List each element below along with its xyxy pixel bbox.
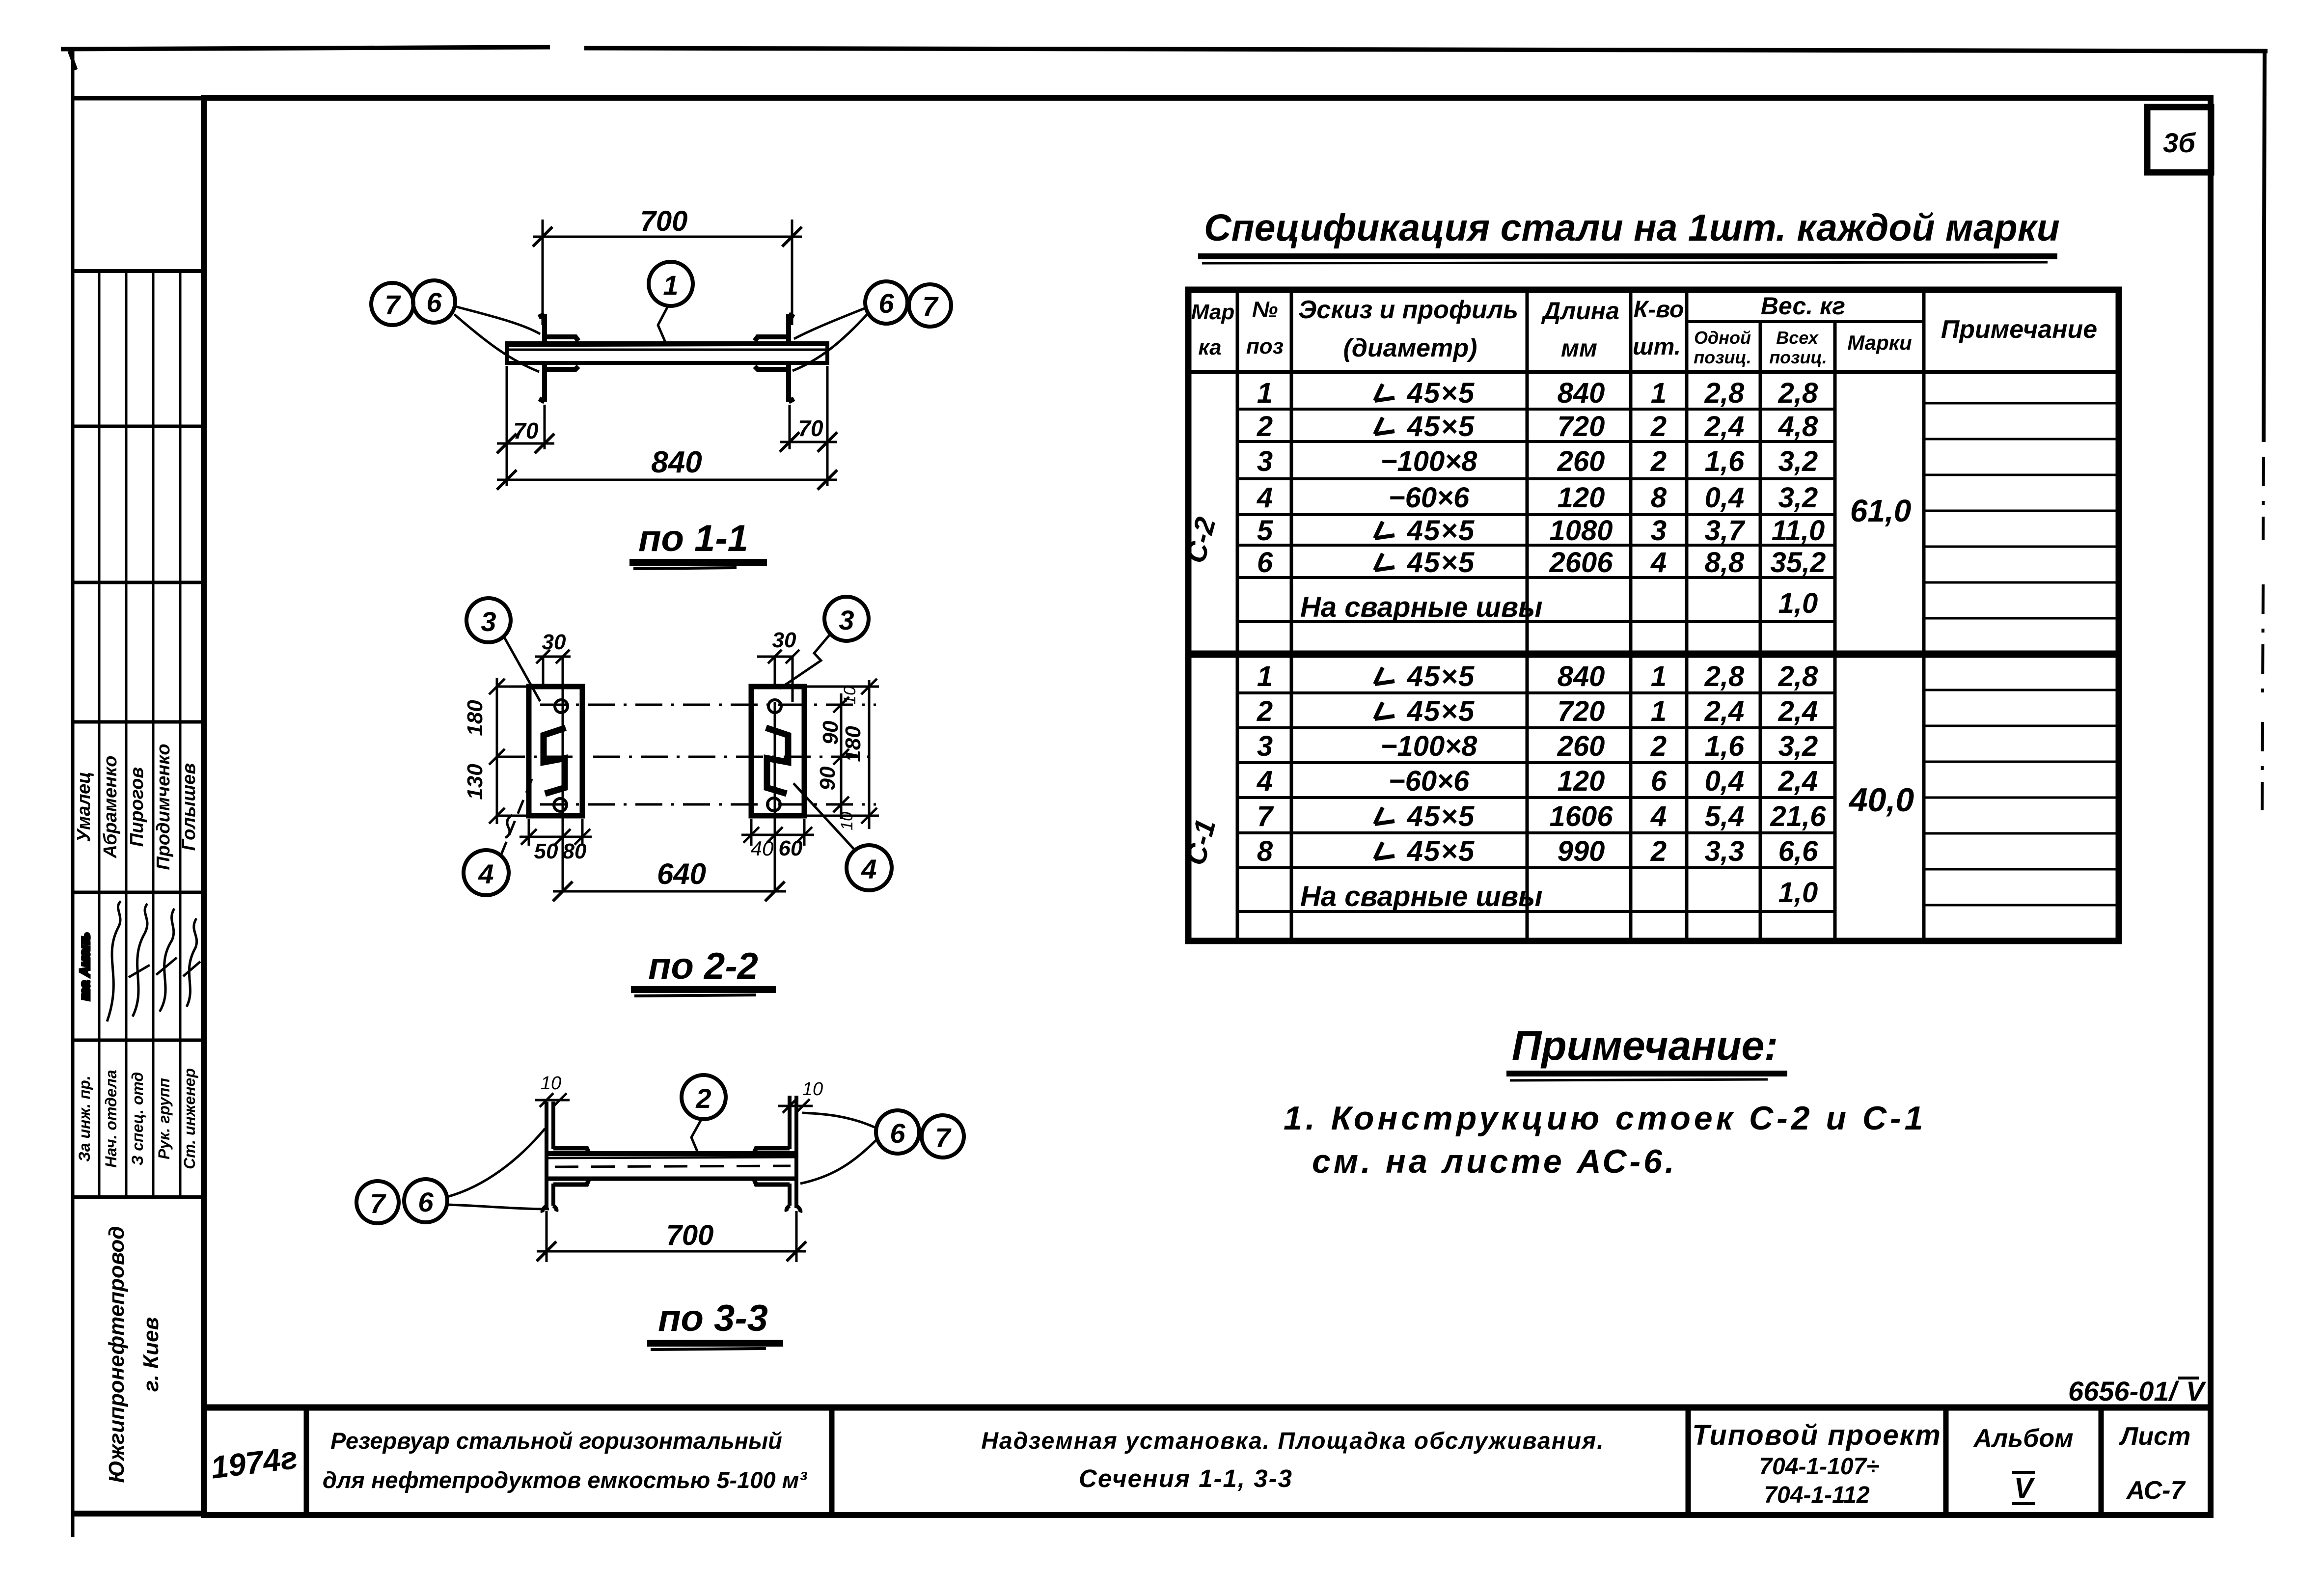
- svg-text:V: V: [2014, 1472, 2035, 1504]
- svg-text:Типовой проект: Типовой проект: [1692, 1419, 1941, 1451]
- svg-text:30: 30: [772, 628, 796, 652]
- svg-text:2: 2: [1650, 835, 1667, 867]
- svg-text:45×5: 45×5: [1407, 835, 1476, 867]
- dims 40/60 bottom right: [751, 702, 804, 891]
- svg-text:по 3-3: по 3-3: [658, 1297, 768, 1339]
- svg-text:4: 4: [861, 854, 876, 884]
- primechanie column row lines: [1924, 403, 2119, 905]
- callout circle 6 (right): [865, 281, 907, 324]
- svg-text:6: 6: [890, 1118, 905, 1149]
- svg-text:4,8: 4,8: [1778, 411, 1818, 442]
- svg-text:позиц.: позиц.: [1694, 347, 1751, 367]
- svg-text:3,2: 3,2: [1778, 445, 1818, 477]
- svg-text:6: 6: [426, 287, 442, 318]
- bolt hole left top: [555, 700, 568, 713]
- svg-text:11,0: 11,0: [1772, 515, 1825, 547]
- table row C-2 pos 1: [1257, 377, 1818, 409]
- svg-text:Продимченко: Продимченко: [153, 744, 174, 870]
- svg-text:Всех: Всех: [1776, 328, 1819, 348]
- svg-text:1: 1: [1651, 377, 1667, 409]
- svg-text:840: 840: [651, 445, 702, 479]
- svg-text:Ст. инженер: Ст. инженер: [181, 1068, 198, 1169]
- callout circle 6 (right): [876, 1110, 919, 1154]
- svg-text:1: 1: [1651, 661, 1667, 692]
- svg-text:№: №: [1252, 297, 1278, 322]
- table row C-2 pos 6: [1257, 547, 1826, 579]
- left stamp column grid: [73, 98, 206, 1515]
- angle profile pos 5 in left plate: [544, 728, 566, 794]
- svg-text:Резервуар стальной горизонтал: Резервуар стальной горизонтальный: [330, 1428, 782, 1454]
- svg-text:2,4: 2,4: [1778, 695, 1818, 727]
- svg-text:Марки: Марки: [1847, 331, 1912, 354]
- dim 700 (top): [533, 220, 802, 325]
- svg-text:Одной: Одной: [1694, 328, 1751, 348]
- svg-text:Надземная установка. Площадка: Надземная установка. Площадка обслуживан…: [981, 1428, 1604, 1454]
- svg-text:130: 130: [463, 764, 487, 800]
- table row C-1 pos 2: [1257, 695, 1818, 727]
- gusset plate left (pos 3): [529, 687, 582, 816]
- svg-text:990: 990: [1558, 835, 1605, 867]
- leader lines left: [455, 306, 540, 334]
- svg-text:4: 4: [1650, 800, 1667, 832]
- svg-text:640: 640: [657, 857, 706, 890]
- svg-text:3б: 3б: [2163, 127, 2196, 158]
- svg-text:45×5: 45×5: [1407, 547, 1476, 579]
- beam pos 1 angle 45x5: [507, 343, 827, 363]
- svg-text:10: 10: [838, 812, 856, 830]
- svg-text:мм: мм: [1561, 334, 1597, 362]
- svg-text:позиц.: позиц.: [1769, 347, 1827, 367]
- svg-text:50: 50: [534, 839, 558, 863]
- beam pos 2 angle: [547, 1154, 796, 1179]
- svg-text:704-1-112: 704-1-112: [1764, 1482, 1870, 1508]
- table row C-1 pos 7: [1257, 800, 1826, 832]
- gusset plate right (pos 3): [751, 687, 804, 816]
- svg-text:2,8: 2,8: [1704, 661, 1745, 692]
- svg-text:2: 2: [1650, 411, 1667, 442]
- callout circle 7 (left): [356, 1181, 399, 1223]
- table row C-1 pos 3: [1257, 730, 1818, 762]
- svg-text:г. Киев: г. Киев: [139, 1317, 163, 1392]
- svg-text:1: 1: [1651, 695, 1667, 727]
- svg-text:260: 260: [1557, 730, 1605, 762]
- svg-text:6: 6: [418, 1186, 434, 1217]
- table row C-1 pos 8: [1257, 835, 1818, 867]
- svg-text:см. на листе АС-6.: см. на листе АС-6.: [1312, 1143, 1677, 1180]
- title block frame: [204, 1405, 2211, 1411]
- table row C-1 pos 1: [1257, 661, 1818, 692]
- svg-text:704-1-107÷: 704-1-107÷: [1759, 1454, 1879, 1480]
- svg-text:120: 120: [1558, 765, 1605, 797]
- table column lines: [1237, 290, 1924, 941]
- svg-text:2,8: 2,8: [1778, 661, 1818, 692]
- header bottom line: [1188, 370, 2119, 374]
- svg-text:4: 4: [1650, 547, 1667, 579]
- svg-text:ка: ка: [1198, 335, 1221, 359]
- svg-text:Примечание: Примечание: [1941, 315, 2097, 344]
- svg-text:−100×8: −100×8: [1381, 730, 1478, 762]
- svg-text:2,4: 2,4: [1778, 765, 1818, 797]
- svg-text:3: 3: [839, 605, 854, 635]
- svg-text:Пирогов: Пирогов: [127, 767, 147, 847]
- svg-text:35,2: 35,2: [1771, 547, 1826, 579]
- svg-text:2,4: 2,4: [1704, 411, 1745, 442]
- leader lines right: [794, 308, 866, 339]
- svg-text:1: 1: [1257, 377, 1273, 409]
- svg-text:45×5: 45×5: [1407, 377, 1476, 409]
- svg-text:1606: 1606: [1549, 800, 1613, 832]
- svg-text:2,4: 2,4: [1704, 695, 1745, 727]
- svg-text:Вес. кг: Вес. кг: [1761, 292, 1845, 320]
- svg-text:7: 7: [370, 1188, 386, 1219]
- svg-text:3: 3: [1257, 730, 1273, 762]
- svg-text:10: 10: [802, 1079, 823, 1100]
- svg-text:90: 90: [819, 720, 843, 745]
- main drawing frame: [204, 98, 2211, 1515]
- svg-text:7: 7: [384, 289, 401, 320]
- svg-text:З спец. отд: З спец. отд: [129, 1072, 146, 1165]
- svg-text:840: 840: [1558, 377, 1605, 409]
- svg-text:80: 80: [563, 839, 587, 863]
- svg-text:по 2-2: по 2-2: [648, 945, 758, 987]
- svg-text:8: 8: [1257, 835, 1273, 867]
- svg-text:70: 70: [513, 418, 539, 443]
- svg-text:Голышев: Голышев: [179, 763, 199, 851]
- svg-text:4: 4: [1257, 482, 1273, 514]
- svg-text:Эскиз и профиль: Эскиз и профиль: [1298, 296, 1518, 324]
- svg-text:180: 180: [841, 726, 865, 762]
- table frame: [1188, 290, 2119, 941]
- svg-text:720: 720: [1558, 411, 1605, 442]
- dims 180/130 left: [496, 678, 498, 824]
- svg-text:Спецификация стали на 1шт.: Спецификация стали на 1шт. каждой марки: [1204, 207, 2060, 249]
- bolt hole right bottom: [767, 798, 780, 811]
- dims 50/80 bottom left: [529, 726, 582, 891]
- svg-text:2,8: 2,8: [1778, 377, 1818, 409]
- svg-text:2: 2: [1257, 411, 1273, 442]
- table row C-2 pos 4: [1257, 482, 1818, 514]
- svg-text:2606: 2606: [1549, 547, 1613, 579]
- sheet number box 3b: [2147, 107, 2211, 172]
- svg-text:5: 5: [1257, 515, 1273, 547]
- svg-text:5,4: 5,4: [1705, 800, 1745, 832]
- body row lines C-2: [1237, 409, 1835, 622]
- svg-text:700: 700: [666, 1219, 714, 1251]
- svg-text:шт.: шт.: [1633, 334, 1681, 360]
- table row C-2 pos 2: [1257, 411, 1818, 442]
- svg-text:21,6: 21,6: [1770, 800, 1827, 832]
- svg-text:На сварные швы: На сварные швы: [1300, 881, 1543, 912]
- svg-text:6,6: 6,6: [1778, 835, 1818, 867]
- callout circle 6 (left): [404, 1179, 447, 1222]
- svg-text:10: 10: [541, 1073, 561, 1094]
- seat clips on beam: [553, 1148, 790, 1185]
- callout circle 7 (right): [922, 1115, 964, 1158]
- svg-text:45×5: 45×5: [1407, 661, 1476, 692]
- svg-text:90: 90: [816, 766, 840, 790]
- callout circle 6 (left): [413, 280, 455, 323]
- svg-text:1,0: 1,0: [1778, 877, 1818, 909]
- svg-text:6: 6: [1257, 547, 1273, 579]
- svg-text:3: 3: [1651, 515, 1667, 547]
- callout circle 4 (left): [464, 850, 509, 895]
- svg-text:Умалец: Умалец: [74, 772, 94, 842]
- svg-text:Мар: Мар: [1191, 300, 1235, 324]
- svg-text:10: 10: [841, 686, 859, 705]
- svg-text:Альбом: Альбом: [1972, 1424, 2073, 1453]
- svg-text:45×5: 45×5: [1407, 695, 1476, 727]
- svg-text:Нач. отдела: Нач. отдела: [102, 1070, 120, 1167]
- table row C-2 pos 5: [1257, 515, 1825, 547]
- svg-text:1: 1: [663, 270, 678, 301]
- clip angles pos 6/7 upper right: [755, 314, 794, 343]
- clip angles pos 6/7 upper left: [539, 314, 578, 343]
- svg-text:−60×6: −60×6: [1389, 765, 1470, 797]
- section view po 1-1: [371, 205, 951, 569]
- svg-text:4: 4: [1257, 765, 1273, 797]
- svg-text:7: 7: [1257, 800, 1274, 832]
- svg-text:Абраменко: Абраменко: [100, 755, 121, 858]
- svg-text:45×5: 45×5: [1407, 411, 1476, 442]
- svg-text:(диаметр): (диаметр): [1343, 334, 1477, 362]
- svg-text:30: 30: [542, 630, 566, 654]
- svg-text:Сечения 1-1, 3-3: Сечения 1-1, 3-3: [1079, 1464, 1293, 1492]
- svg-text:7: 7: [922, 291, 939, 322]
- svg-text:1,6: 1,6: [1705, 445, 1745, 477]
- section view po 3-3: [356, 1073, 964, 1350]
- svg-text:720: 720: [1558, 695, 1605, 727]
- body row lines C-1: [1237, 693, 1835, 911]
- svg-text:3,3: 3,3: [1705, 835, 1745, 867]
- svg-text:по 1-1: по 1-1: [638, 518, 748, 559]
- svg-text:3: 3: [1257, 445, 1273, 477]
- svg-text:3: 3: [481, 606, 496, 637]
- dim 640: [553, 890, 786, 893]
- svg-text:−60×6: −60×6: [1389, 482, 1470, 514]
- svg-text:3,2: 3,2: [1778, 730, 1818, 762]
- clip angles pos 6/7 lower left: [539, 363, 578, 402]
- dim 70 left: [497, 366, 554, 486]
- svg-text:За инж. пр.: За инж. пр.: [76, 1076, 93, 1161]
- svg-text:120: 120: [1558, 482, 1605, 514]
- end plate left (pos 3/4): [543, 1102, 557, 1213]
- svg-text:700: 700: [640, 205, 688, 237]
- svg-text:7: 7: [935, 1122, 952, 1153]
- leader line pos 1: [658, 306, 668, 343]
- table row C-1 pos 4: [1257, 765, 1818, 797]
- svg-text:61,0: 61,0: [1850, 493, 1912, 528]
- svg-text:6: 6: [1651, 765, 1667, 797]
- svg-text:3,7: 3,7: [1705, 515, 1746, 547]
- svg-text:Южгипронефтепровод: Южгипронефтепровод: [105, 1226, 129, 1483]
- svg-text:60: 60: [779, 836, 803, 860]
- svg-text:К-во: К-во: [1634, 297, 1684, 323]
- svg-text:840: 840: [1558, 661, 1605, 692]
- end plate right (pos 3/4): [787, 1096, 801, 1213]
- svg-text:АС-7: АС-7: [2126, 1476, 2186, 1505]
- svg-text:1: 1: [1257, 661, 1273, 692]
- svg-text:0,4: 0,4: [1705, 765, 1745, 797]
- svg-text:6: 6: [878, 288, 894, 319]
- bolt hole left bottom: [554, 799, 567, 811]
- svg-text:2,8: 2,8: [1704, 377, 1745, 409]
- ves kg split line: [1687, 320, 1924, 323]
- table row C-2 pos 3: [1257, 445, 1818, 477]
- header texts: [1191, 292, 2097, 367]
- svg-text:4: 4: [478, 858, 493, 889]
- svg-text:та Амань: та Амань: [77, 933, 92, 1000]
- svg-text:−100×8: −100×8: [1381, 445, 1478, 477]
- svg-text:0,4: 0,4: [1705, 482, 1745, 514]
- svg-text:2: 2: [1257, 695, 1273, 727]
- angle profile pos 5 in right plate: [766, 728, 788, 794]
- svg-text:8: 8: [1651, 482, 1667, 514]
- svg-text:3,2: 3,2: [1778, 482, 1818, 514]
- section view po 2-2: [463, 597, 892, 996]
- dim 840: [497, 479, 837, 481]
- svg-text:Рук. групп: Рук. групп: [155, 1078, 173, 1159]
- svg-text:поз: поз: [1246, 334, 1284, 359]
- callout circle 4 (right): [847, 845, 892, 890]
- clip angles pos 6/7 lower right: [755, 363, 794, 402]
- svg-text:8,8: 8,8: [1705, 547, 1745, 579]
- svg-text:40,0: 40,0: [1848, 781, 1914, 819]
- svg-text:2: 2: [695, 1083, 711, 1114]
- svg-text:для нефтепродуктов емкостью 5-: для нефтепродуктов емкостью 5-100 м³: [323, 1467, 807, 1493]
- callout circle 3 (left): [466, 598, 511, 642]
- svg-text:260: 260: [1557, 445, 1605, 477]
- callout circle 3 (right): [824, 597, 869, 641]
- svg-text:1. Конструкцию стоек С-: 1. Конструкцию стоек С-2 и С-1: [1284, 1100, 1927, 1137]
- svg-text:1,0: 1,0: [1778, 587, 1818, 619]
- svg-text:45×5: 45×5: [1407, 800, 1476, 832]
- callout circle 7 (right): [909, 284, 951, 327]
- svg-text:1,6: 1,6: [1705, 730, 1745, 762]
- svg-text:Лист: Лист: [2119, 1422, 2191, 1451]
- svg-text:70: 70: [798, 415, 823, 441]
- dim 700 bottom: [547, 1211, 796, 1262]
- svg-text:Примечание:: Примечание:: [1512, 1022, 1778, 1069]
- stamp signatures (rotated squiggles): [77, 901, 200, 1021]
- block separator line: [1188, 651, 2119, 658]
- dim 180 right: [868, 680, 871, 829]
- callout circle 1: [649, 262, 693, 306]
- svg-text:Длина: Длина: [1541, 297, 1619, 325]
- svg-text:180: 180: [463, 700, 487, 736]
- svg-text:45×5: 45×5: [1407, 515, 1476, 547]
- svg-text:2: 2: [1650, 730, 1667, 762]
- svg-text:На сварные швы: На сварные швы: [1300, 591, 1543, 623]
- svg-text:1080: 1080: [1549, 515, 1613, 547]
- chain centre lines: [498, 705, 876, 804]
- dims 90/90 right: [840, 693, 843, 819]
- svg-text:2: 2: [1650, 445, 1667, 477]
- bolt hole right top: [768, 700, 781, 713]
- svg-text:40: 40: [751, 837, 774, 860]
- callout circle 7 (left): [371, 283, 413, 325]
- svg-text:6656-01/: 6656-01/: [2068, 1376, 2180, 1407]
- svg-text:V: V: [2186, 1376, 2207, 1407]
- callout circle 2: [682, 1075, 726, 1119]
- dim 70 right: [780, 366, 837, 486]
